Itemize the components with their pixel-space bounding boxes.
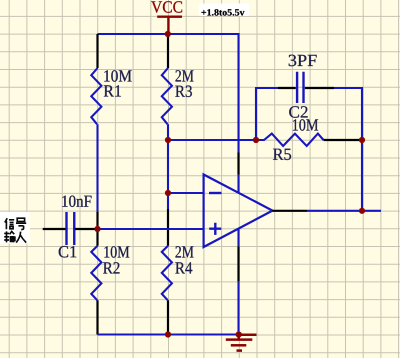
wire top rail from R1 top to op-amp V+ drop: [98, 34, 239, 153]
resistor R5 pin right: [324, 139, 363, 141]
op-amp supply stub below body: [237, 229, 239, 247]
bottom rail wire: [98, 333, 239, 335]
capacitor C2 labels: [289, 55, 317, 66]
op-amp minus mark: [209, 192, 222, 194]
node VCC junction: [165, 31, 171, 37]
wire inverting input: [168, 192, 203, 194]
capacitor C1: [67, 212, 75, 245]
resistor R3 labels: [176, 70, 194, 81]
op-amp supply stub above body: [237, 175, 239, 193]
wire C2 right riser: [334, 88, 362, 211]
node bias junction: [94, 226, 100, 232]
power VCC: [157, 17, 182, 34]
resistor R4 labels: [176, 246, 194, 257]
node output junction: [359, 208, 365, 214]
ground: [226, 335, 257, 351]
wire V- to ground: [237, 281, 239, 334]
label 信号输入 background: [0, 212, 30, 244]
wire feedback horizontal to R5/C2 left node: [168, 139, 256, 141]
label 输入 (input) hand-drawn: [4, 231, 26, 242]
op-amp plus mark: [209, 223, 221, 235]
resistor R4 pins: [167, 209, 169, 335]
node R5 left junction: [253, 137, 259, 143]
resistor R3 pin top: [167, 34, 169, 68]
VCC label: [151, 1, 182, 13]
resistor R2 labels: [104, 246, 129, 258]
resistor R2 pins: [96, 212, 98, 335]
resistor R3: [162, 68, 172, 124]
capacitor C1 pin right: [75, 228, 98, 230]
node bottom rail junction: [165, 331, 171, 337]
signal input wire (C1 left pin): [43, 228, 66, 230]
op-amp V- pin: [237, 246, 239, 281]
capacitor C2 pins: [278, 87, 334, 89]
node feedback left junction: [165, 137, 171, 143]
node R5 right junction: [359, 137, 365, 143]
op-amp output pin: [273, 210, 308, 212]
wire noninverting input: [98, 228, 204, 230]
capacitor C2: [297, 72, 303, 103]
wire feedback node to inverting input node: [167, 140, 169, 209]
label 信号 (signal) hand-drawn: [5, 218, 26, 229]
supply note +1.8to5.5v: [199, 4, 249, 17]
op-amp V+ pin: [237, 153, 239, 175]
resistor R1: [91, 68, 101, 124]
wire R1 bottom to C1 node: [96, 124, 98, 212]
node ground junction: [236, 331, 242, 337]
op-amp U1: [204, 175, 273, 248]
wire R3 bottom to feedback node: [167, 124, 169, 140]
wire output: [307, 210, 381, 212]
capacitor C1 labels: [62, 196, 91, 208]
resistor R5 labels: [293, 119, 318, 131]
resistor R2: [91, 246, 101, 300]
resistor R4: [162, 246, 172, 300]
node inverting input junction: [165, 190, 171, 196]
wire C2 left riser: [256, 88, 278, 140]
resistor R1 pin top: [96, 34, 98, 68]
resistor R1 labels: [104, 70, 131, 82]
resistor R5: [256, 134, 324, 146]
